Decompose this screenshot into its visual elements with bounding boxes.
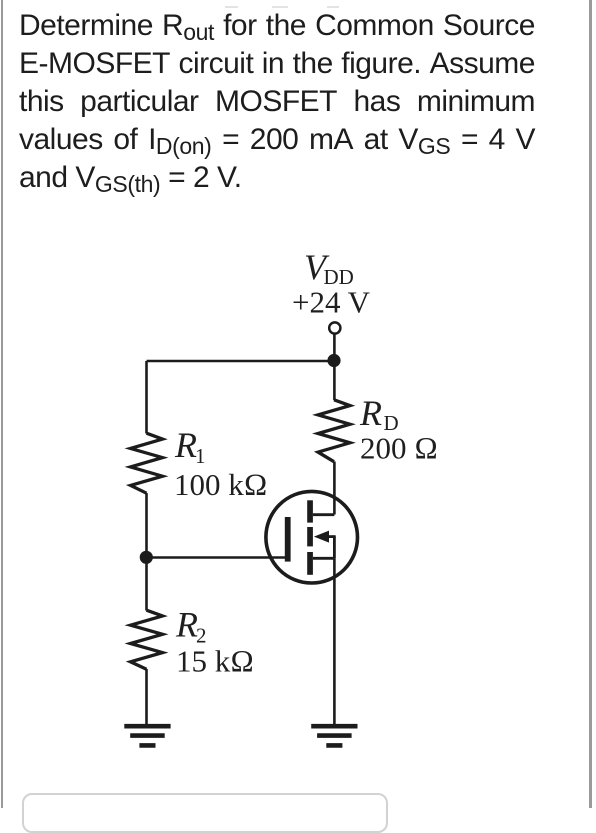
wire R1 bottom to gate node — [145, 493, 148, 611]
svg-text:+24 V: +24 V — [292, 285, 371, 320]
labels — [174, 247, 438, 679]
resistor RD — [318, 400, 350, 462]
wire source to right ground — [333, 558, 336, 725]
svg-text:1: 1 — [195, 444, 206, 468]
gate node dot — [140, 551, 153, 564]
MOSFET gate bar — [285, 517, 291, 562]
svg-text:R: R — [359, 393, 382, 433]
wire VDD terminal to junction — [333, 334, 336, 360]
answer input box bottom — [22, 793, 388, 833]
wire R2 bottom to left ground — [145, 669, 148, 725]
wire left rail upper (to R1 top) — [145, 361, 148, 434]
MOSFET channel top (drain) bar — [307, 500, 313, 522]
svg-text:200 Ω: 200 Ω — [360, 431, 438, 466]
MOSFET drain connection — [313, 513, 335, 516]
MOSFET body arrow line — [326, 535, 336, 538]
left page border — [1, 0, 3, 808]
problem statement text — [19, 7, 535, 197]
svg-text:R: R — [175, 605, 198, 645]
resistor R2 — [131, 610, 163, 669]
svg-text:100 kΩ: 100 kΩ — [174, 467, 268, 502]
MOSFET channel middle (body) bar — [307, 527, 313, 546]
ground right — [311, 726, 357, 745]
MOSFET source connection — [313, 557, 335, 560]
wire top horizontal — [147, 360, 335, 363]
MOSFET body arrow head — [314, 531, 329, 543]
wire gate node to MOSFET gate — [147, 556, 288, 559]
resistor R1 — [131, 433, 163, 493]
right page border — [589, 0, 592, 808]
wire RD bottom to drain — [333, 462, 336, 515]
ground left — [124, 726, 170, 745]
wire junction to RD top — [333, 360, 336, 400]
junction node dot — [327, 354, 340, 367]
MOSFET Q1 body circle — [266, 491, 358, 583]
svg-text:15 kΩ: 15 kΩ — [176, 644, 254, 679]
faint cropped text remnants top — [225, 6, 238, 8]
MOSFET channel bottom (source) bar — [307, 552, 313, 575]
svg-text:R: R — [174, 425, 197, 465]
VDD terminal circle — [329, 322, 340, 333]
